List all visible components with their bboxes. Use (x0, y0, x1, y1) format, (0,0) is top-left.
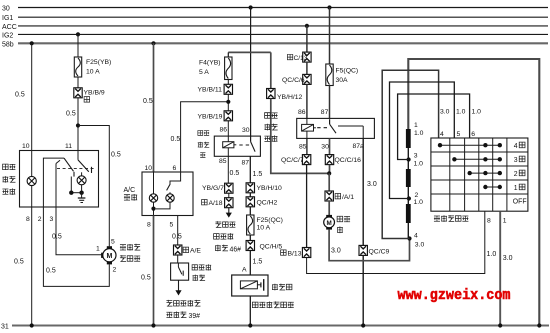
A/C relay coil (223, 142, 237, 157)
bus ACC (2, 24, 548, 31)
fuse F25(QC) 10A (247, 215, 283, 235)
pin 4 junction node (407, 236, 411, 240)
svg-text:1.0: 1.0 (487, 251, 497, 258)
wire to QC/C/6 (306, 62, 308, 74)
A/C relay dashed link (239, 144, 249, 146)
connector YB/B/19 (198, 111, 233, 121)
wire IG2 to F25(YB) (77, 34, 79, 57)
svg-text:2: 2 (113, 266, 117, 273)
label 空调继电器 (198, 131, 209, 158)
recirc internal pin 3 wire (56, 160, 60, 207)
junction recirc pin8 on bus 31 (30, 323, 34, 327)
text 至发动机控 制单元39# (166, 300, 200, 320)
wire relay 85 down, 0.5 (228, 156, 239, 183)
switch pin 8 stub label (487, 217, 491, 224)
svg-text:4: 4 (414, 233, 418, 240)
svg-text:6: 6 (173, 165, 177, 172)
svg-text:0.5: 0.5 (46, 267, 56, 274)
svg-text:A: A (242, 266, 247, 273)
connector YB/G/7 (202, 183, 233, 193)
svg-text:30: 30 (2, 5, 10, 12)
node on IG2 feeding fuse F25(YB) (76, 32, 80, 36)
svg-text:3.0: 3.0 (415, 242, 425, 249)
svg-text:2: 2 (38, 216, 42, 223)
recirc left switch arm (64, 158, 74, 177)
fuse F25(YB) 10A (74, 57, 111, 77)
svg-text:1.0: 1.0 (472, 109, 482, 116)
wire feed node to 前/A/1 (328, 173, 330, 191)
connector 前B/13 (281, 248, 311, 258)
svg-text:M: M (326, 220, 331, 227)
svg-text:3.0: 3.0 (503, 255, 513, 262)
pin labels 8 5 (147, 221, 174, 228)
blower motor return wire to resistor pin 4, 3.0 (329, 230, 409, 261)
gear labels 4挡 3挡 2挡 1挡 OFF (513, 142, 527, 205)
svg-text:1: 1 (414, 122, 418, 129)
connector YB/H/12 (267, 89, 303, 101)
A/C lamp right (156, 192, 175, 209)
wire YB/B/11 branch to A/C pin 6, 0.5 (171, 102, 228, 172)
connector YB/B/11 (198, 84, 233, 94)
wire relay 85 down (306, 138, 308, 154)
svg-text:3: 3 (50, 216, 54, 223)
svg-text:M: M (106, 253, 112, 260)
junction 87a ground on bus 31 (361, 323, 365, 327)
svg-text:3.0: 3.0 (367, 181, 377, 188)
wire pin 8 to bus 31, 0.5 (14, 207, 32, 326)
label 鼓风机开关 (434, 215, 468, 222)
node on bus 30 feeding A/C relay pin 30 (249, 5, 253, 9)
ground inside recirc switch (78, 193, 86, 203)
svg-text:3.0: 3.0 (440, 109, 450, 116)
svg-text:B/13: B/13 (288, 250, 302, 257)
svg-text:1.0: 1.0 (414, 130, 424, 137)
svg-text:1.5: 1.5 (253, 171, 263, 178)
svg-text:F5(QC): F5(QC) (336, 67, 359, 74)
wire YB/H/12 down and right to blower feed node (271, 99, 329, 174)
svg-text:F25(YB): F25(YB) (86, 59, 111, 66)
wire QC/C/6 to relay 86 (306, 84, 308, 118)
text 通过支架接地 (252, 301, 293, 308)
wire to F25(QC) (249, 207, 251, 215)
red watermark www.gzweix.com (398, 288, 511, 304)
pin 10 and 6 labels (145, 165, 177, 172)
svg-text:5: 5 (111, 239, 115, 246)
svg-text:1.0: 1.0 (456, 109, 466, 116)
junction node to A/C switch pin 6 (226, 100, 230, 104)
blower motor M 鼓风机 (324, 215, 350, 233)
wire QC/C/7 down to 前B/13 (306, 165, 308, 248)
svg-text:8: 8 (26, 216, 30, 223)
wire R2 to R3 with tap 2 (407, 187, 409, 204)
blower relay coil (302, 118, 316, 138)
svg-text:A/E: A/E (190, 248, 201, 255)
bus IG2 (2, 32, 548, 39)
svg-text:YB/H/10: YB/H/10 (257, 185, 283, 192)
blower relay box 鼓风机继电器 (297, 118, 375, 138)
svg-text:5 A: 5 A (199, 69, 209, 76)
svg-text:QC/C9: QC/C9 (369, 248, 390, 255)
svg-text:31: 31 (1, 323, 9, 330)
relay pin labels 86 30 (220, 126, 250, 134)
svg-text:39#: 39# (189, 313, 201, 320)
wire relay 30 down (329, 138, 331, 154)
junction A/C pin8 on bus 31 (151, 323, 155, 327)
wire 前B/13 to blower switch pin 8, 1.0 (307, 211, 497, 273)
svg-text:QC/C/6: QC/C/6 (282, 77, 305, 84)
svg-text:5: 5 (457, 131, 461, 138)
recirc motor M 内外循环电机 (101, 239, 140, 274)
svg-text:0.5: 0.5 (52, 233, 62, 240)
svg-text:YB/B/19: YB/B/19 (198, 113, 223, 120)
fuse F5(QC) 30A (326, 64, 358, 86)
wire relay 87a down, 3.0 (363, 138, 377, 245)
node on ACC feeding blower relay coil 86 (305, 24, 309, 28)
wire F4 to YB/B/11 (227, 80, 229, 85)
blower relay pin labels 85 30 87a (299, 143, 364, 150)
bus 31 (ground) (1, 323, 549, 330)
wire YB/B/11 down with junction (227, 94, 229, 111)
node on 58b feeding recirc switch pin 10 (30, 41, 34, 45)
svg-text:85: 85 (219, 158, 227, 165)
svg-text:IG1: IG1 (2, 15, 13, 22)
svg-text:8: 8 (487, 217, 491, 224)
wire recirc motor pin 2 loop to pin 2, 0.5 (43, 207, 109, 286)
svg-text:2: 2 (415, 192, 419, 199)
switch row 1挡 contacts (483, 185, 502, 189)
wire 58b to A/C switch pin 10, 0.5 (143, 43, 154, 172)
svg-text:YB/G/7: YB/G/7 (202, 185, 224, 192)
text 至发动 机控制 单元46# (214, 221, 242, 253)
feed wire from YB/H/12 riser to fuse F4 (228, 52, 270, 57)
connector 前A/E (174, 245, 202, 255)
svg-text:46#: 46# (230, 246, 242, 253)
wire YB/B/19 to relay coil 86 (227, 121, 229, 142)
svg-text:QC/H2: QC/H2 (257, 199, 278, 206)
route: switch col 5 to tap 2, 1.0 (390, 82, 466, 199)
A/C relay box 空调继电器 (214, 136, 260, 156)
switch row 2挡 contacts (468, 171, 502, 175)
recirc indicator lamp left (27, 151, 36, 208)
wire bus 30 down to A/C relay pin 30 (250, 8, 252, 142)
svg-text:85: 85 (299, 143, 307, 150)
wire pin 3 to recirc motor pin 1, 0.5 (52, 207, 102, 255)
svg-text:QC/C/16: QC/C/16 (335, 157, 362, 164)
junction switch pin 1 on bus 31 (498, 323, 502, 327)
svg-text:1: 1 (503, 217, 507, 224)
svg-text:www.gzweix.com: www.gzweix.com (398, 288, 511, 304)
svg-text:F4(YB): F4(YB) (199, 59, 221, 66)
node on bus 30 feeding F5 (327, 5, 331, 9)
A/C switch box (142, 172, 193, 216)
svg-text:QC/C/7: QC/C/7 (281, 157, 304, 164)
A/C switch arm from pin 6 (167, 172, 181, 190)
svg-text:F25(QC): F25(QC) (257, 217, 283, 224)
riser wire with YB/H/12 to blower feed node (270, 52, 272, 88)
svg-text:5: 5 (170, 221, 174, 228)
wire relay 87 down, 1.5 (250, 156, 262, 183)
svg-text:11: 11 (65, 143, 72, 150)
wire R3 to pin 4 node, 3.0 (408, 223, 424, 249)
junction compressor ground on bus 31 (248, 323, 252, 327)
bus 30 (2, 5, 548, 12)
connector 至A/18 (202, 198, 233, 208)
tap node 3, 1.0 (407, 153, 424, 168)
connector QC/C/7 (281, 155, 311, 165)
svg-text:4: 4 (440, 131, 444, 138)
svg-text:1: 1 (96, 246, 100, 253)
svg-text:YB/H/12: YB/H/12 (277, 94, 303, 101)
svg-text:A/18: A/18 (209, 200, 223, 207)
recirc internal junction nodes (69, 177, 84, 195)
label A/C 开关 (124, 187, 138, 201)
label 鼓风机继电器 (264, 113, 277, 142)
pin 11 label (65, 143, 72, 150)
route: switch col 4 to pin 4 node, 3.0 (382, 70, 449, 238)
switch row 4挡 contacts (438, 143, 502, 147)
svg-text:10 A: 10 A (86, 68, 100, 75)
wire fuse to connector YB/B/9 (77, 77, 79, 88)
connector YB/B/9 (low) (74, 88, 105, 102)
wire YB/B/9 to recirc pin 11, 0.5 (66, 98, 78, 151)
wire 58b to recirc switch pin 10, 0.5 (15, 43, 32, 150)
recirc switch gang dashed link (57, 168, 95, 170)
svg-text:C/13: C/13 (294, 55, 308, 62)
wire A/C pin 8 to bus 31, 0.5 (141, 216, 154, 326)
switch row 3挡 contacts (452, 157, 502, 161)
connector YB/H/10 (246, 183, 282, 193)
svg-text:ACC: ACC (2, 24, 17, 31)
compressor 压缩机 (232, 275, 292, 296)
wire F5 to relay 87 (329, 86, 331, 119)
junction right route on bus 31 (537, 323, 541, 327)
blower relay pin labels 86 87 (298, 109, 329, 116)
svg-text:3: 3 (414, 153, 418, 160)
blower relay switch arm and 87a bar (330, 119, 364, 138)
A/C lamp left (149, 172, 157, 216)
svg-text:10 A: 10 A (257, 224, 271, 231)
wire R1 to R2 with tap 3 (407, 148, 409, 169)
A/C internal junction node (151, 207, 155, 211)
relay pin labels 85 87 (219, 158, 249, 166)
svg-text:3.0: 3.0 (331, 248, 341, 255)
svg-text:0.5: 0.5 (141, 274, 151, 281)
svg-text:30: 30 (321, 143, 329, 150)
svg-text:10: 10 (22, 143, 30, 150)
wire QC/H/5 to compressor, 1.5, node A (242, 251, 262, 276)
wire to 至A/18 (228, 193, 230, 198)
svg-text:30A: 30A (336, 77, 349, 84)
wire to pressure switch (177, 255, 179, 263)
svg-text:QC/H/5: QC/H/5 (260, 243, 283, 250)
label 内外循环开关 (2, 164, 15, 195)
wire QC/C/16 to feed node (329, 165, 331, 174)
svg-text:/A/1: /A/1 (342, 194, 354, 201)
tap node 2, 1.0 (407, 192, 423, 206)
wire A/C pin 5 down, 0.5 (172, 216, 182, 246)
svg-text:1: 1 (514, 185, 518, 192)
svg-text:86: 86 (298, 109, 306, 116)
svg-text:1.0: 1.0 (414, 161, 424, 168)
blower switch box 鼓风机开关 (431, 138, 528, 211)
pin labels 8 2 3 (26, 216, 54, 223)
node on 58b feeding A/C switch pin 10 (151, 41, 155, 45)
wire to blower motor (328, 201, 330, 217)
resistor R1, pin 1 1.0 (406, 122, 424, 148)
wire junction to recirc motor pin 5, 0.5 (78, 126, 121, 247)
svg-text:4: 4 (514, 143, 518, 150)
recirc indicator lamp right (77, 172, 86, 191)
bus 58b (2, 41, 548, 48)
svg-text:YB/B/9: YB/B/9 (84, 89, 105, 96)
svg-text:0.5: 0.5 (66, 110, 76, 117)
svg-text:IG2: IG2 (2, 32, 13, 39)
blower relay dashed link (317, 127, 327, 129)
svg-text:1.5: 1.5 (253, 259, 263, 266)
svg-text:86: 86 (220, 126, 228, 133)
svg-text:8: 8 (147, 221, 151, 228)
svg-text:87a: 87a (353, 143, 365, 150)
bus IG1 (2, 15, 548, 22)
wire to QC/H/5 (249, 235, 251, 241)
connector 前/A/1 (325, 191, 354, 201)
wire to QC/H2 (249, 193, 251, 197)
wire bus 30 to fuse F5 (329, 8, 331, 65)
wire QC/C/9 to bus 31 (362, 255, 364, 325)
arrow to engine control unit 46# (226, 208, 232, 218)
svg-text:0.5: 0.5 (172, 234, 182, 241)
svg-text:87: 87 (242, 159, 250, 166)
svg-text:YB/B/11: YB/B/11 (198, 87, 223, 94)
connector QC/H2 (246, 197, 277, 207)
svg-text:6: 6 (471, 131, 475, 138)
fuse F4(YB) 5A (199, 57, 232, 80)
connector QC/C/6 (282, 74, 311, 84)
recirc switch box (20, 151, 99, 208)
svg-text:0.5: 0.5 (111, 151, 121, 158)
svg-text:A/C: A/C (124, 187, 136, 194)
wire switch pin 1 to bus 31, 3.0 (500, 211, 512, 325)
resistor R3 (406, 204, 411, 223)
svg-text:58b: 58b (2, 41, 14, 48)
svg-text:1.0: 1.0 (414, 199, 424, 206)
svg-text:0.5: 0.5 (230, 170, 240, 177)
svg-text:0.5: 0.5 (15, 92, 25, 99)
svg-text:87: 87 (321, 109, 329, 116)
resistor R2 (406, 169, 411, 187)
pin 10 label (22, 143, 30, 150)
svg-text:3: 3 (514, 157, 518, 164)
arrow to engine control unit 39# (175, 280, 181, 295)
svg-text:OFF: OFF (513, 199, 527, 206)
wire compressor to bus 31 (249, 296, 251, 326)
wire ACC down to 前C/13 (306, 26, 308, 52)
junction node to recirc motor feed (76, 123, 80, 127)
recirc internal wire pin2 L (43, 158, 64, 207)
connector QC/H/5 (246, 241, 282, 251)
recirc right switch arm from pin 11 (78, 151, 92, 174)
svg-text:0.5: 0.5 (171, 136, 181, 143)
svg-text:0.5: 0.5 (143, 98, 153, 105)
connector QC/C/9 (359, 245, 389, 255)
A/C relay switch arm (251, 142, 256, 152)
connector 前C/13 (287, 52, 311, 62)
svg-text:10: 10 (145, 165, 153, 172)
svg-text:30: 30 (242, 127, 250, 134)
high/low pressure switch 高低压开关 (171, 263, 212, 281)
resistor pack feed from top H-route, 3.0 (408, 59, 539, 326)
route: switch col 6 to tap 3, 1.0 (398, 94, 482, 160)
connector QC/C/16 (325, 155, 361, 165)
svg-text:0.5: 0.5 (14, 258, 24, 265)
svg-text:2: 2 (514, 171, 518, 178)
blower feed junction node (327, 171, 331, 175)
